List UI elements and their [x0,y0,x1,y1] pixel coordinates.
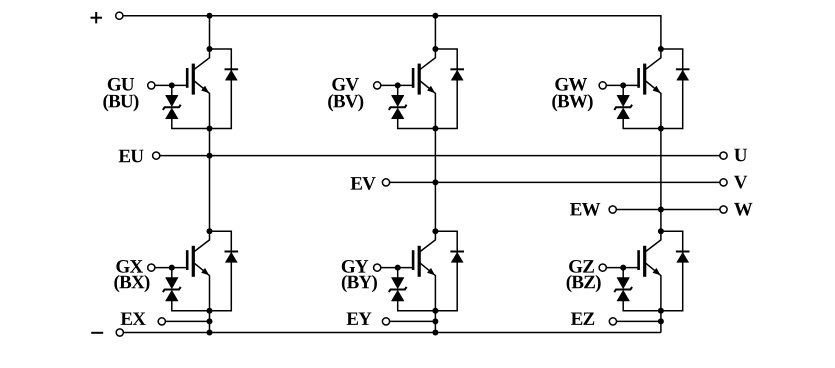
terminal P (+) circle [116,12,123,19]
wire freewheel-diode branch of D3 [661,49,683,129]
zener ZD5 upper triangle (points down) [391,278,404,289]
node: collector of Q5 (lower V-phase IGBT) (leg top, x=435.4) [432,228,438,234]
wire zener bottom lead to emitter node [172,119,210,129]
label GY [342,260,368,273]
zener ZD6 lower triangle (points up) [617,290,630,301]
wire emitter of Q2 (upper V-phase IGBT) [420,81,435,129]
wire leg W midpoint vertical [660,129,662,232]
label EY [347,312,372,324]
node: emitter of Q6 (lower W-phase IGBT) (leg bottom) [658,308,664,314]
wire emitter of Q5 (lower V-phase IGBT) [420,263,435,311]
label GV [332,78,359,91]
wire freewheel-diode branch of D4 [210,231,232,311]
node: EW line / leg W [658,207,664,213]
label EW [570,203,600,216]
wire zener top lead (ZD6) [622,268,624,278]
terminal circle GU [148,82,155,89]
node: EY line / leg [432,318,438,324]
zener ZD1 lower triangle (points up) [166,108,179,119]
label (BZ) [567,275,601,292]
zener ZD2 center bar with zener tails [389,105,407,110]
node: gate junction of Q2 (upper V-phase IGBT) [395,82,401,88]
wire freewheel-diode branch of D5 [435,231,457,311]
diode D4 (free-wheel, triangle) [225,252,237,262]
wire P bus (top rail) [123,16,661,49]
zener ZD2 lower triangle (points up) [391,108,404,119]
node: emitter of Q4 (lower U-phase IGBT) (leg bottom) [207,308,213,314]
IGBT Q1 (upper U-phase IGBT) gate bar [186,68,189,88]
zener ZD1 upper triangle (points down) [166,95,179,106]
wire V leg drop from P bus [434,16,436,49]
node: collector of Q1 (upper U-phase IGBT) (leg top, x=209.5) [207,46,213,52]
terminal EX circle [158,318,165,325]
zener ZD1 center bar with zener tails [163,105,181,110]
terminal circle GZ [599,264,606,271]
node: gate junction of Q4 (lower U-phase IGBT) [169,265,175,271]
terminal circle GX [148,264,155,271]
node: gate junction of Q6 (lower W-phase IGBT) [620,265,626,271]
node: emitter of Q3 (upper W-phase IGBT) (leg bottom) [658,126,664,132]
zener ZD5 lower triangle (points up) [391,290,404,301]
wire EZ emitter line [617,320,661,322]
wire V leg to N bus [434,311,436,333]
node: collector of Q4 (lower U-phase IGBT) (leg top, x=209.5) [207,228,213,234]
IGBT Q4 (lower U-phase IGBT) body bar [192,246,195,277]
label EV [351,177,376,190]
wire zener bottom lead to emitter node [398,301,436,311]
diode D2 (free-wheel, cathode bar) [450,68,464,70]
node: gate junction of Q3 (upper W-phase IGBT) [620,82,626,88]
terminal EW circle [609,206,616,213]
zener ZD6 upper triangle (points down) [617,278,630,289]
node: emitter of Q1 (upper U-phase IGBT) (leg bottom) [207,126,213,132]
terminal circle GY [374,264,381,271]
wire zener top lead (ZD3) [622,85,624,95]
wire U leg drop from P bus [209,16,211,49]
wire freewheel-diode branch of D1 [210,49,232,129]
terminal circle GW [599,82,606,89]
IGBT Q1 (upper U-phase IGBT) body bar [192,64,195,95]
diode D3 (free-wheel, triangle) [677,70,689,80]
IGBT Q5 (lower V-phase IGBT) emitter arrow [427,268,434,275]
wire freewheel-diode branch of D2 [435,49,457,129]
wire gate lead GX [155,267,188,269]
label (BV) [328,94,363,111]
wire EU / phase-U output line [160,155,720,157]
IGBT Q6 (lower W-phase IGBT) body bar [643,246,646,277]
wire collector lead of Q1 (upper U-phase IGBT) [194,49,209,69]
node: EV line / leg V [432,179,438,185]
IGBT Q3 (upper W-phase IGBT) gate bar [637,68,640,88]
wire EW / phase-W output line [616,209,720,211]
node: collector of Q6 (lower W-phase IGBT) (leg top, x=660.9) [658,228,664,234]
zener ZD5 center bar with zener tails [389,287,407,292]
terminal EU circle [153,152,160,159]
zener ZD6 center bar with zener tails [614,287,632,292]
IGBT Q4 (lower U-phase IGBT) gate bar [186,250,189,270]
wire gate lead GU [155,84,188,86]
IGBT Q1 (upper U-phase IGBT) emitter arrow [202,86,209,93]
label (BU) [103,94,138,111]
IGBT Q5 (lower V-phase IGBT) gate bar [412,250,415,270]
label GW [555,78,587,91]
wire leg V midpoint vertical [434,129,436,232]
terminal EV circle [382,179,389,186]
wire N bus (bottom rail) [123,332,661,334]
terminal EY circle [382,318,389,325]
label V (phase output) [734,176,747,189]
wire emitter of Q3 (upper W-phase IGBT) [646,81,661,129]
wire EX emitter line [165,320,209,322]
diode D1 (free-wheel, triangle) [225,70,237,80]
node: emitter of Q2 (upper V-phase IGBT) (leg bottom) [432,126,438,132]
terminal circle GV [374,82,381,89]
diode D6 (free-wheel, cathode bar) [676,251,690,253]
zener ZD3 upper triangle (points down) [617,95,630,106]
zener ZD2 upper triangle (points down) [391,95,404,106]
node: gate junction of Q5 (lower V-phase IGBT) [395,265,401,271]
wire gate lead GZ [607,267,640,269]
node: collector of Q3 (upper W-phase IGBT) (leg top, x=660.9) [658,46,664,52]
zener ZD4 upper triangle (points down) [166,278,179,289]
label W (phase output) [734,203,752,216]
diode D3 (free-wheel, cathode bar) [676,68,690,70]
label EU [119,150,144,163]
node: top rail / V leg [432,13,438,19]
node: emitter of Q5 (lower V-phase IGBT) (leg bottom) [432,308,438,314]
wire zener top lead (ZD5) [397,268,399,278]
IGBT Q6 (lower W-phase IGBT) gate bar [637,250,640,270]
wire collector lead of Q6 (lower W-phase IGBT) [646,231,661,251]
wire zener top lead (ZD1) [171,85,173,95]
diode D5 (free-wheel, triangle) [451,252,463,262]
zener ZD4 lower triangle (points up) [166,290,179,301]
zener ZD4 center bar with zener tails [163,287,181,292]
terminal N (−) circle [116,329,123,336]
wire zener top lead (ZD2) [397,85,399,95]
node: gate junction of Q1 (upper U-phase IGBT) [169,82,175,88]
wire W leg to N bus corner [660,311,662,333]
terminal W (phase output) circle [720,206,727,213]
node: EU line / leg U [207,153,213,159]
label GX [116,260,143,273]
IGBT Q2 (upper V-phase IGBT) emitter arrow [427,86,434,93]
node: N bus / U leg [207,330,213,336]
diode D5 (free-wheel, cathode bar) [450,251,464,253]
label (BW) [552,94,592,111]
diode D6 (free-wheel, triangle) [677,252,689,262]
wire EV / phase-V output line [390,181,720,183]
node: EX line / leg [207,318,213,324]
label GZ [569,260,594,273]
node: EZ line / leg [658,318,664,324]
IGBT Q5 (lower V-phase IGBT) body bar [418,246,421,277]
IGBT Q3 (upper W-phase IGBT) emitter arrow [653,86,660,93]
wire zener bottom lead to emitter node [623,301,661,311]
label (BY) [342,275,377,292]
wire gate lead GY [381,267,414,269]
terminal U (phase output) circle [720,152,727,159]
node: top rail / U leg [207,13,213,19]
terminal V (phase output) circle [720,179,727,186]
label GU [108,78,134,91]
IGBT Q6 (lower W-phase IGBT) emitter arrow [653,268,660,275]
wire zener top lead (ZD4) [171,268,173,278]
node: N bus / V leg [432,330,438,336]
node: collector of Q2 (upper V-phase IGBT) (leg top, x=435.4) [432,46,438,52]
label + (positive DC terminal) [91,17,103,19]
label EX [121,312,146,324]
wire EY emitter line [390,320,436,322]
wire collector lead of Q3 (upper W-phase IGBT) [646,49,661,69]
label (BX) [114,275,149,292]
wire gate lead GV [381,84,414,86]
wire collector lead of Q2 (upper V-phase IGBT) [420,49,435,69]
wire collector lead of Q5 (lower V-phase IGBT) [420,231,435,251]
wire zener bottom lead to emitter node [623,119,661,129]
IGBT Q2 (upper V-phase IGBT) body bar [418,64,421,95]
label EZ [571,312,594,324]
terminal EZ circle [609,318,616,325]
wire zener bottom lead to emitter node [172,301,210,311]
label − (negative DC terminal) [91,332,103,334]
diode D1 (free-wheel, cathode bar) [225,68,239,70]
wire collector lead of Q4 (lower U-phase IGBT) [194,231,209,251]
wire emitter of Q6 (lower W-phase IGBT) [646,263,661,311]
zener ZD3 center bar with zener tails [614,105,632,110]
wire emitter of Q4 (lower U-phase IGBT) [194,263,209,311]
label U (phase output) [734,149,747,162]
IGBT Q4 (lower U-phase IGBT) emitter arrow [202,268,209,275]
diode D2 (free-wheel, triangle) [451,70,463,80]
wire zener bottom lead to emitter node [398,119,436,129]
wire freewheel-diode branch of D6 [661,231,683,311]
IGBT Q2 (upper V-phase IGBT) gate bar [412,68,415,88]
zener ZD3 lower triangle (points up) [617,108,630,119]
wire U leg to N bus [209,311,211,333]
wire leg U midpoint vertical [209,129,211,232]
diode D4 (free-wheel, cathode bar) [225,251,239,253]
wire gate lead GW [607,84,640,86]
IGBT Q3 (upper W-phase IGBT) body bar [643,64,646,95]
wire emitter of Q1 (upper U-phase IGBT) [194,81,209,129]
